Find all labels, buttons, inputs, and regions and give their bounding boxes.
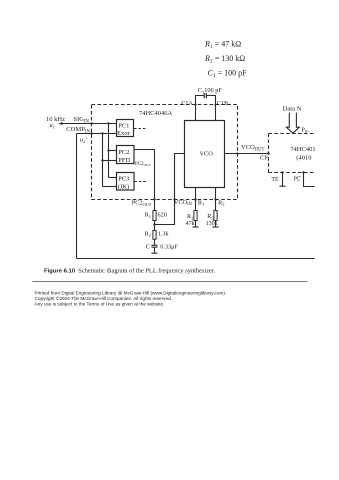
resistor R1 47k [194,211,197,221]
node COMP/PC2 tap [101,132,103,134]
wire COMP bus vertical drop [102,134,104,187]
svg-text:PC2OUT: PC2OUT [132,200,152,207]
svg-text:Copyright ©2004 The McGraw-Hil: Copyright ©2004 The McGraw-Hill Companie… [35,295,173,301]
wire VCO_IN path [155,154,185,225]
wire PC3 top input [109,177,117,179]
svg-text:VCO: VCO [200,151,214,158]
equations block [204,40,247,80]
node C1B pin crossing [214,103,216,105]
svg-text:R1 = 47 kΩ: R1 = 47 kΩ [204,40,241,51]
svg-text:0.33μF: 0.33μF [160,244,178,251]
svg-text:620: 620 [158,212,167,219]
svg-text:PL: PL [294,177,301,183]
wire SIG bus vertical drop [108,124,110,178]
node COMP_IN pin [90,132,92,134]
svg-text:C1A: C1A [181,100,193,107]
svg-text:VCOOUT: VCOOUT [241,144,265,152]
resistor R2 1.3k [153,231,156,240]
svg-text:(JK): (JK) [118,184,130,191]
wire 47k to ground [195,221,197,227]
svg-text:PC1: PC1 [118,123,129,130]
resistor R1 620 [153,211,156,221]
phase comparator PC3 box [117,173,135,191]
svg-text:74HC401: 74HC401 [290,146,315,153]
wire feedback loop left vertical [76,134,78,259]
svg-text:P0..: P0.. [302,128,311,134]
svg-text:C1100 pF: C1100 pF [198,87,223,94]
footer text [35,291,227,307]
node PC2 top tap [107,149,109,151]
wire R2 pin of VCO [215,188,217,211]
wire SIG_IN horizontal [63,123,117,125]
pin TE with ground [281,171,283,173]
svg-text:PC2OUT: PC2OUT [135,162,151,167]
svg-text:R1: R1 [198,199,204,206]
capacitor C1 pin C1A wire [196,96,204,121]
svg-text:C1B: C1B [217,100,228,107]
svg-text:PC2: PC2 [118,149,129,156]
node SIG/PC2 tap [107,122,109,124]
wire VCO_OUT [225,153,269,155]
Data N hollow arrow [286,113,299,134]
svg-text:(4010: (4010 [296,155,311,162]
svg-text:TE: TE [271,177,279,183]
svg-text:74HC4046A: 74HC4046A [139,110,173,117]
footer rule [32,281,307,283]
resistor R2 130k [214,211,217,221]
node VCO_OUT at 4046 edge [236,152,238,154]
svg-text:Printed from Digital Engineeri: Printed from Digital Engineering Library… [35,291,227,296]
svg-text:47k: 47k [186,221,195,227]
ground under 47k [192,226,198,228]
node PC2 bottom tap [101,159,103,161]
svg-text:R2: R2 [207,213,213,220]
svg-text:R2 = 130 kΩ: R2 = 130 kΩ [204,54,245,65]
wire PC2 bottom input [103,160,117,162]
input arrowhead [58,122,62,125]
wire R2 to capacitor C [154,239,156,245]
capacitor C plates [151,244,157,246]
wire 130k to ground [215,221,217,227]
node loop filter tap [153,223,155,225]
node CP pin [267,152,269,154]
IC U1 74HC4046A dashed outline [92,105,238,200]
node C1A pin crossing [194,103,196,105]
svg-text:R1: R1 [145,212,151,219]
wire C to ground [154,247,156,253]
capacitor C1 plates [203,93,205,98]
wire feedback loop bottom horizontal [77,258,315,260]
svg-text:Data N: Data N [283,105,302,112]
svg-text:Exor: Exor [117,130,130,137]
node PC2_OUT pin crossing [153,198,155,200]
svg-text:u2′: u2′ [80,137,87,144]
wire PC1 dashed output [134,128,147,130]
node R1 pin crossing [194,198,196,200]
wire COMP_IN horizontal [77,133,117,135]
wire R1 620 to node [154,221,156,231]
capacitor C1 pin C1B wire [207,96,216,121]
ground under TE [279,185,285,187]
svg-text:C1 = 100 pF: C1 = 100 pF [208,68,248,79]
svg-text:PC3: PC3 [118,176,129,183]
wire PC3 bottom input [103,186,117,188]
VCO block [185,121,225,188]
ground under C [151,252,157,254]
svg-text:u1: u1 [50,122,55,129]
svg-text:Any use is subject to the Term: Any use is subject to the Terms of Use a… [35,302,165,307]
svg-text:1.3k: 1.3k [158,230,170,237]
ground under 130k [212,226,218,228]
wire PC2 output to pin [134,150,155,211]
node SIG_IN pin [90,122,92,124]
phase comparator PC2 box [117,146,135,164]
node VCO_IN pin crossing [173,198,175,200]
svg-text:CP: CP [260,154,268,161]
pin PL wire [302,171,304,173]
svg-text:PFD: PFD [118,157,130,164]
wire PC2 top input [109,150,117,152]
svg-text:Figure 6.10 Schematic diagram: Figure 6.10 Schematic diagram of the PLL… [44,268,216,275]
node R2 pin crossing [214,198,216,200]
wire R1 pin of VCO [195,188,197,211]
svg-text:VCOIN: VCOIN [174,199,193,206]
svg-text:R2: R2 [218,199,224,206]
svg-text:R1: R1 [187,213,193,220]
phase comparator PC1 box [117,120,134,137]
svg-text:C: C [146,244,150,251]
IC U2 74HC40102 dashed outline (clipped at right) [268,134,270,173]
svg-text:R2: R2 [145,230,151,237]
wire PC3 dashed output [135,181,148,183]
